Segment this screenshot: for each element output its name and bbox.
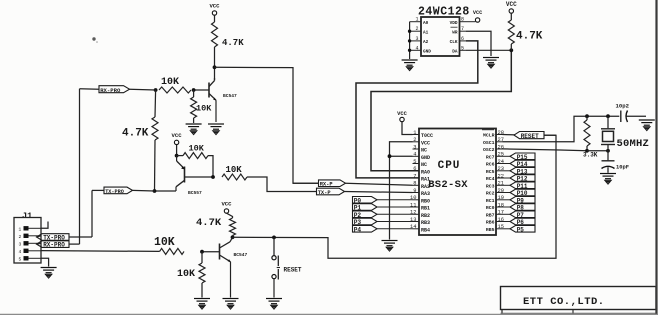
resistor 10K (VCC to Q2 base pull-up) [177, 155, 183, 157]
svg-text:RX-PRO: RX-PRO [43, 242, 65, 249]
svg-text:TX-P: TX-P [318, 190, 331, 196]
pin 7 RA1 of CPU [413, 177, 420, 179]
ground under 10pF cap [600, 174, 616, 185]
wire J1 pin 3 to RX-PRO flag [37, 242, 42, 245]
node Q2 emitter / VCC / 10K [175, 154, 179, 158]
svg-text:J1: J1 [22, 211, 32, 221]
wire Q2 base to node [185, 176, 214, 178]
pin 15 RB5 of CPU [496, 228, 503, 230]
svg-text:RC4: RC4 [486, 176, 495, 182]
svg-text:RB4: RB4 [421, 227, 430, 233]
svg-text:4.7K: 4.7K [222, 38, 244, 48]
wire TX-PRO flag to vertical [92, 189, 104, 191]
wire CPU pin 2 to ground rail [390, 142, 413, 240]
svg-text:1: 1 [19, 226, 22, 232]
flag P1 (to CPU pin 11) [353, 204, 378, 211]
pin 10 RB0 of CPU [413, 199, 420, 201]
flag P14 (from CPU pin 24) [503, 163, 512, 165]
svg-text:VCC: VCC [397, 111, 407, 117]
pin 18 RC0 of CPU [496, 206, 503, 208]
pin 17 RB7 of CPU [496, 213, 503, 215]
wire J1 pin 1 stub [41, 222, 48, 229]
svg-text:BC557: BC557 [188, 190, 202, 196]
capacitor 10pF (OSC2 to ground) [607, 151, 609, 161]
svg-text:VCC: VCC [221, 201, 232, 208]
resistor 4.7K (collector pull-up of Q1) [212, 22, 218, 47]
crystal Y1 50MHZ [601, 116, 615, 151]
pin 9 RA3 of CPU [413, 192, 420, 194]
flag TX-PRO (net label, mid left) [104, 187, 133, 194]
node collector Q1 [213, 65, 217, 69]
svg-text:RB0: RB0 [421, 198, 430, 204]
wire CPU pin 28 MCLR to RESET flag [503, 134, 516, 136]
flag P7 (from CPU pin 17) [503, 213, 512, 215]
svg-text:RB1: RB1 [421, 206, 430, 212]
pin 22 RC4 of CPU [496, 177, 503, 179]
svg-text:10K: 10K [189, 144, 205, 154]
wire reset rail (Q3 collector to right trunk) [233, 135, 557, 258]
wire OSC2 (CPU pin 26) to oscillator bottom rail [503, 149, 588, 151]
flag P5 (from CPU pin 15) [503, 228, 512, 230]
pin 8 RA2 of CPU [413, 184, 420, 186]
wire VCC to CPU pin 1 [402, 122, 413, 135]
svg-text:BC547: BC547 [223, 93, 237, 99]
node Q2 base / 10K junction [211, 175, 215, 179]
pin 1 A0 of 24WC128 [410, 21, 421, 23]
svg-text:NC: NC [421, 162, 427, 168]
svg-text:OSC2: OSC2 [483, 147, 495, 153]
ground under Q3 emitter [223, 299, 239, 310]
svg-text:RESET: RESET [521, 133, 539, 140]
node oscillator top rail / crystal [606, 114, 610, 118]
pin 5 DA of 24WC128 [460, 49, 467, 51]
IC U2 24WC128 body [421, 17, 460, 56]
svg-text:RB2: RB2 [421, 213, 430, 219]
svg-text:7: 7 [461, 26, 464, 32]
svg-text:RC5: RC5 [486, 169, 495, 175]
node oscillator bottom rail / 3.3K [585, 149, 589, 153]
overline MCLR pin [482, 129, 494, 131]
svg-text:2: 2 [19, 234, 22, 240]
wire collector Q1 to node [214, 47, 216, 80]
node Q3 collector / reset rail [231, 235, 235, 239]
svg-text:CLK: CLK [450, 40, 458, 45]
pin 27 OSC1 of CPU [496, 141, 503, 143]
svg-text:10K: 10K [226, 165, 243, 175]
svg-text:RB6: RB6 [486, 220, 495, 226]
pin 14 RB4 of CPU [413, 228, 420, 230]
svg-text:BS2-SX: BS2-SX [428, 179, 468, 191]
ground under 10K base resistor [186, 124, 202, 135]
svg-text:4: 4 [415, 45, 418, 51]
flag P9 (from CPU pin 19) [503, 199, 512, 201]
svg-text:3.3K: 3.3K [583, 152, 598, 159]
svg-text:A0: A0 [423, 21, 429, 26]
pin 24 RC6 of CPU [496, 163, 503, 165]
wire J1 pin 2 to TX-PRO flag [37, 236, 42, 237]
wire RX-PRO flag left corner [80, 88, 100, 90]
pin 8 VDD of 24WC128 [460, 21, 467, 23]
title block box ETT CO.,LTD. [501, 287, 657, 310]
svg-text:6: 6 [461, 36, 464, 42]
svg-text:P4: P4 [354, 226, 362, 233]
resistor 3.3K (across oscillator) [586, 116, 588, 120]
svg-text:3: 3 [413, 144, 416, 150]
svg-text:RB5: RB5 [486, 227, 495, 233]
pin 20 RC2 of CPU [496, 192, 503, 194]
svg-text:1: 1 [413, 130, 416, 136]
svg-text:1: 1 [415, 17, 418, 23]
svg-text:VCC: VCC [506, 1, 517, 8]
pin 11 RB1 of CPU [413, 206, 420, 208]
flag P2 (to CPU pin 12) [353, 211, 378, 218]
wire oscillator bottom rail [587, 150, 608, 152]
wire RX-PRO flag to vertical riser [69, 243, 80, 245]
node base Q1 [192, 88, 196, 92]
ground under 10K of Q3 [194, 299, 210, 310]
svg-text:RB7: RB7 [486, 213, 495, 219]
svg-text:4.7K: 4.7K [196, 217, 222, 229]
wire J1 pin 5 to ground [41, 258, 49, 266]
svg-text:MCLR: MCLR [483, 133, 495, 139]
svg-text:CPU: CPU [438, 160, 461, 172]
svg-text:WR: WR [452, 30, 458, 35]
svg-text:RA2: RA2 [421, 184, 430, 190]
pin 1 T0CC of CPU [413, 134, 420, 136]
svg-text:VCC: VCC [209, 3, 220, 10]
pin 19 RC1 of CPU [496, 199, 503, 201]
node EEPROM GND tie [408, 49, 411, 52]
wire vertical TX-PRO down to J1 [91, 190, 93, 237]
resistor 10K (Q1 base to ground) [193, 90, 195, 97]
node TX-PRO / 4.7K / Q2 collector [153, 189, 157, 193]
wire Q2 collector line to node [155, 190, 177, 192]
pin 6 RA0 of CPU [413, 170, 420, 172]
resistor 4.7K (DA pull-up) [510, 13, 512, 20]
svg-text:9: 9 [413, 188, 416, 194]
svg-text:NC: NC [421, 148, 427, 154]
flag RESET (to MCLR) [514, 132, 544, 139]
svg-text:RC0: RC0 [486, 205, 495, 211]
svg-text:3: 3 [19, 241, 22, 247]
svg-text:T0CC: T0CC [421, 133, 433, 139]
flag TX-PRO (at J1 pin 2) [37, 234, 70, 241]
svg-text:10K: 10K [154, 236, 175, 249]
svg-text:8: 8 [461, 17, 464, 23]
flag RX-PRO (at J1 pin 3) [37, 241, 70, 248]
svg-text:OSC1: OSC1 [483, 140, 495, 146]
pin 4 GND of 24WC128 [410, 49, 421, 51]
pin 12 RB2 of CPU [413, 213, 420, 215]
ground of CPU [382, 241, 398, 252]
flag RX-P (to CPU pin 8) [293, 182, 319, 184]
ground under Q1 emitter [208, 124, 224, 135]
flag P11 (from CPU pin 21) [503, 184, 512, 186]
flag P15 (from CPU pin 25) [503, 155, 512, 157]
node RX-PRO / 10K / 4.7K junction [154, 88, 158, 92]
resistor 4.7K (RX line to Q2 collector) [154, 90, 157, 117]
wire EEPROM address pins common vertical to ground [409, 22, 411, 59]
svg-text:4: 4 [413, 152, 416, 158]
ground of EEPROM WR [483, 58, 499, 69]
transistor Q3 BC547 (NPN, reset driver) [220, 237, 233, 297]
capacitor 10p2 (OSC1 to ground) [620, 111, 622, 123]
pin 2 A1 of 24WC128 [410, 30, 421, 32]
wire CPU pin 4 GND to ground rail [390, 155, 413, 157]
svg-text:10K: 10K [161, 77, 179, 88]
svg-text:GND: GND [423, 50, 431, 55]
wire cap to right ground [627, 115, 647, 117]
pin 13 RB3 of CPU [413, 221, 420, 223]
svg-text:RX-P: RX-P [320, 182, 333, 188]
resistor 10K (series from J1 pin4 to Q3 base) [160, 248, 184, 254]
svg-text:VDD: VDD [450, 21, 458, 26]
wire base Q1 [194, 89, 209, 91]
pin 2 VCC of CPU [413, 141, 420, 143]
svg-text:RB3: RB3 [421, 220, 430, 226]
pin 3 A2 of 24WC128 [410, 40, 421, 42]
node oscillator bottom rail / crystal [606, 149, 610, 153]
svg-text:RC2: RC2 [486, 191, 495, 197]
ground of EEPROM address pins [402, 60, 418, 71]
flag P6 (from CPU pin 16) [503, 221, 512, 223]
svg-text:10K: 10K [177, 269, 195, 280]
ground of J1 [41, 268, 57, 279]
svg-text:RC3: RC3 [486, 184, 495, 190]
pin 5 NC of CPU [413, 163, 420, 165]
svg-text:VCC: VCC [172, 132, 183, 139]
node DA pull-up junction [509, 48, 513, 52]
svg-text:VCC: VCC [421, 140, 430, 146]
flag P13 (from CPU pin 23) [503, 170, 512, 172]
node CPU ground tie [388, 154, 392, 158]
node reset switch tap [272, 236, 276, 240]
svg-text:10K: 10K [196, 104, 212, 114]
wire RESET flag to right trunk [544, 134, 556, 136]
ground right of 10p2 cap [639, 120, 655, 131]
node EEPROM A1 tie [408, 30, 411, 33]
svg-text:50MHZ: 50MHZ [617, 138, 650, 150]
pin 21 RC3 of CPU [496, 184, 503, 186]
wire VDD to VCC [466, 21, 475, 23]
svg-text:6: 6 [413, 166, 416, 172]
svg-text:A2: A2 [423, 40, 429, 45]
flag TX-P (to CPU pin 9) [317, 188, 345, 195]
resistor 10K (Q3 base to ground) [201, 252, 203, 263]
transistor Q2 BC557 (PNP, TX driver) [176, 156, 185, 191]
ground under RESET switch [266, 299, 282, 310]
flag RX-PRO (net label, top left) [99, 86, 130, 93]
pin 28 MCLR of CPU [496, 134, 503, 136]
flag P8 (from CPU pin 18) [503, 206, 512, 208]
pin 23 RC5 of CPU [496, 170, 503, 172]
wire WR to ground [466, 31, 491, 56]
svg-text:RC7: RC7 [486, 155, 495, 161]
svg-text:VCC: VCC [473, 10, 482, 16]
svg-text:5: 5 [413, 159, 416, 165]
pin 25 RC7 of CPU [496, 155, 503, 157]
svg-text:A1: A1 [423, 30, 429, 35]
wire TX-PRO flag to vertical riser [69, 236, 92, 238]
wire CLK from EEPROM to CPU pin 7 [356, 41, 478, 178]
svg-text:RA0: RA0 [421, 169, 430, 175]
pin 7 WR of 24WC128 [460, 30, 467, 32]
node oscillator top rail / 3.3K [585, 114, 589, 118]
resistor 10K (series from RX-PRO to Q1 base) [159, 87, 191, 93]
svg-text:TX-PRO: TX-PRO [105, 189, 124, 195]
svg-text:RA3: RA3 [421, 191, 430, 197]
node Q3 base [200, 250, 204, 254]
overline WR pin [451, 26, 458, 28]
svg-text:DA: DA [452, 50, 458, 55]
svg-text:RC1: RC1 [486, 198, 495, 204]
ink speck top left [92, 37, 95, 40]
svg-text:5: 5 [19, 256, 22, 262]
svg-text:RESET: RESET [284, 267, 302, 274]
svg-text:RX-PRO: RX-PRO [100, 87, 121, 94]
title block second row (cut off) [501, 310, 503, 315]
svg-text:10pF: 10pF [616, 165, 629, 171]
flag P10 (from CPU pin 20) [503, 192, 512, 194]
svg-text:10p2: 10p2 [616, 103, 630, 110]
svg-text:4.7K: 4.7K [516, 31, 543, 43]
scan border bottom edge [0, 313, 658, 315]
wire DA from EEPROM to CPU pin 6 [466, 49, 511, 51]
pin 26 OSC2 of CPU [496, 148, 503, 150]
wire Q3 base [202, 251, 220, 253]
wire vertical RX-PRO down to J1 [79, 89, 81, 244]
svg-text:5: 5 [461, 45, 464, 51]
svg-text:2: 2 [415, 26, 418, 32]
transistor Q1 BC547 (NPN, RX level shifter) [209, 78, 216, 122]
node EEPROM A2 tie [408, 39, 411, 42]
flag P3 (to CPU pin 13) [353, 218, 378, 225]
svg-text:P5: P5 [517, 226, 525, 233]
pin 4 GND of CPU [413, 155, 420, 157]
svg-text:4.7K: 4.7K [122, 128, 149, 140]
pin 3 NC of CPU [413, 148, 420, 150]
wire collector Q1 to RX-P flag (right then down) [215, 67, 319, 183]
svg-text:4: 4 [19, 249, 22, 255]
flag P4 (to CPU pin 14) [353, 226, 378, 233]
resistor 4.7K (VCC to Q3 collector) [230, 218, 236, 236]
scan border right edge [655, 0, 657, 315]
pin 6 CLK of 24WC128 [460, 40, 467, 42]
switch RESET (push button) [272, 237, 280, 297]
svg-text:RC6: RC6 [486, 162, 495, 168]
svg-text:3: 3 [415, 36, 418, 42]
flag P12 (from CPU pin 22) [503, 177, 512, 179]
svg-text:BC547: BC547 [234, 252, 248, 258]
svg-text:GND: GND [421, 155, 430, 161]
flag P0 (to CPU pin 10) [353, 197, 378, 204]
svg-text:8: 8 [413, 181, 416, 187]
svg-text:RA1: RA1 [421, 177, 430, 183]
svg-text:2: 2 [413, 137, 416, 143]
resistor 10K (Q2 base to TX-P) [222, 174, 247, 180]
wire RX-PRO flag to node [130, 88, 156, 91]
wire J1 pin 4 to 10K [41, 250, 160, 253]
svg-text:7: 7 [413, 173, 416, 179]
svg-text:ETT CO.,LTD.: ETT CO.,LTD. [523, 296, 605, 308]
IC U1 CPU BS2-SX body [419, 129, 496, 236]
wire OSC1 (CPU pin 27) to oscillator top rail [503, 116, 620, 142]
pin 16 RB6 of CPU [496, 221, 503, 223]
